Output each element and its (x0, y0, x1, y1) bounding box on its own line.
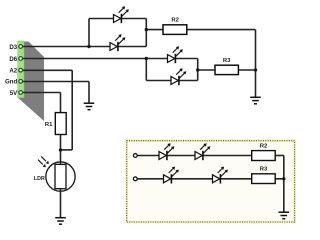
wire top branch pair1 (89, 18, 146, 20)
wire junction A up (88, 19, 90, 47)
module wire R2 out to vertical (275, 155, 284, 157)
wire pair2 tap to R3 (198, 69, 215, 71)
junction dot node A (87, 45, 90, 48)
LDR body circle (46, 162, 75, 191)
svg-text:Gnd: Gnd (5, 79, 17, 86)
LDR arrow 1 (38, 160, 43, 165)
wire top branch pair2 (146, 58, 197, 60)
ground G2 (84, 103, 95, 110)
wire R1 through LDR to ground G3 (60, 135, 62, 218)
wire right vertical pair1 (145, 19, 147, 47)
LED D1 top of pair1 (114, 6, 129, 23)
wire D6 pin to junction B (23, 58, 147, 60)
module right vertical to ground (283, 156, 285, 213)
ground G3 (55, 218, 66, 225)
wire junction B down (145, 59, 147, 81)
wire right vertical pair2 (197, 59, 199, 81)
svg-text:A2: A2 (9, 68, 17, 75)
svg-text:R1: R1 (45, 122, 53, 128)
LED D4 bottom of pair2 (171, 68, 186, 85)
resistor R1 (55, 113, 66, 135)
module LED 3 (164, 167, 179, 184)
LDR arrow 2 (41, 156, 46, 161)
module junction dot (282, 177, 285, 180)
wire down to ground G1 (255, 30, 257, 98)
LED D2 bottom of pair1 (110, 34, 125, 51)
module resistor R3 (252, 174, 276, 184)
resistor R3 (215, 65, 238, 74)
junction dot pair1 tap (145, 28, 148, 31)
connector pin D6 (19, 57, 23, 61)
wire 5V horizontal (23, 92, 61, 94)
wire bottom branch pair2 (146, 80, 197, 82)
junction dot pair2 tap (196, 68, 199, 71)
connector pin A2 (19, 68, 23, 72)
junction dot node B (145, 57, 148, 60)
connector pin D3 (19, 45, 23, 49)
wire Gnd horizontal (23, 81, 90, 83)
module wire row2 (137, 178, 252, 180)
module wire R3 out to node (275, 178, 284, 180)
wire R2 to right corner (187, 29, 256, 31)
wire 5V down to R1 (60, 93, 62, 113)
ground G1 (250, 97, 261, 104)
svg-text:5V: 5V (10, 90, 18, 97)
connector shadow (18, 42, 44, 122)
svg-text:R3: R3 (223, 58, 231, 64)
module ground G4 (279, 212, 290, 219)
junction dot R3 ground node (254, 68, 257, 71)
connector pin Gnd (19, 80, 23, 84)
wire D3 pin to junction A (23, 46, 90, 48)
module LED 4 (213, 167, 228, 184)
svg-text:D3: D3 (9, 44, 17, 51)
wire A2 to node C (61, 149, 73, 151)
connector J1 body (18, 41, 24, 98)
module LED 1 (159, 143, 174, 160)
svg-text:D6: D6 (9, 56, 17, 63)
svg-text:LDR: LDR (34, 176, 45, 182)
module LED 2 (195, 143, 210, 160)
wire A2 vertical (71, 70, 73, 150)
wire R3 to ground node (238, 69, 255, 71)
LED D3 top of pair2 (168, 46, 183, 63)
module box dashed border (127, 141, 295, 222)
connector pin 5V (19, 91, 23, 95)
module wire row1 (137, 155, 252, 157)
module box (dashed) (127, 141, 295, 222)
module terminal 2 (133, 177, 137, 181)
wire pair1 tap to R2 (146, 29, 163, 31)
svg-text:R3: R3 (260, 167, 268, 173)
wire bottom branch pair1 (89, 46, 146, 48)
svg-text:R2: R2 (260, 144, 268, 150)
wire Gnd down to G2 (88, 82, 90, 104)
LDR inner resistor rect (55, 164, 66, 188)
junction dot node C (R1/LDR/A2) (59, 148, 62, 151)
module resistor R2 (252, 151, 276, 161)
wire A2 horizontal (23, 69, 73, 71)
resistor R2 (163, 25, 187, 35)
module terminal 1 (133, 154, 137, 158)
svg-text:R2: R2 (171, 18, 179, 24)
